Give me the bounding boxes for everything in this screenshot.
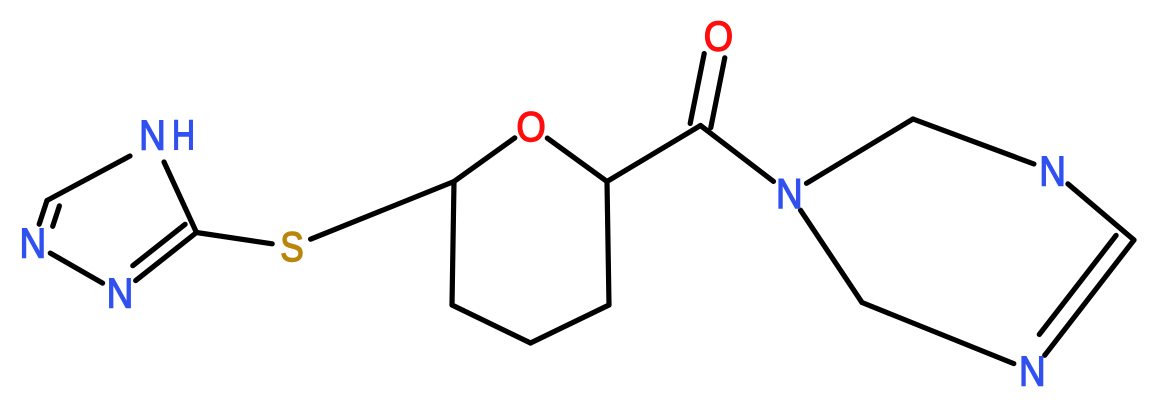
bond V2-Nam (ring CH2) [801, 210, 863, 302]
bond V1-Ntop (ring) [913, 119, 1034, 164]
svg-text:O: O [516, 104, 545, 150]
bond RB-RT (oxane) [607, 182, 609, 306]
svg-text:H: H [172, 111, 195, 158]
bond Cc-Nam (amide C-N) [701, 126, 774, 182]
bond B-RB (oxane) [531, 305, 610, 343]
svg-text:O: O [704, 14, 733, 60]
bond C3-S (thioether) [197, 233, 273, 244]
bond RT-Cc (to carbonyl) [607, 126, 701, 182]
bond D=Nbot outer (amidine) [1045, 240, 1134, 355]
bond Oring-LT (oxane) [454, 138, 515, 182]
bond N4-C5 (triazole NH to C5) [47, 156, 130, 201]
bond LT-LB (oxane) [452, 182, 454, 306]
svg-text:N: N [107, 270, 134, 317]
bond D=Nbot inner (amidine) [1039, 235, 1116, 334]
svg-text:S: S [280, 224, 304, 271]
svg-text:N: N [139, 112, 166, 159]
bond N1-N2 (triazole N-N) [50, 253, 102, 283]
bond N2=C3 inner (triazole) [133, 224, 185, 265]
bond C=O line b (carbonyl) [690, 54, 704, 124]
bond Nam-V1 (ring CH2) [807, 119, 914, 183]
bond C=O line a (carbonyl) [711, 58, 725, 128]
bond LB-B (oxane) [452, 305, 531, 343]
svg-text:N: N [1039, 148, 1066, 195]
bond Ntop-D (ring) [1068, 184, 1134, 240]
bond C3-N4 (triazole) [164, 162, 197, 233]
svg-text:N: N [20, 221, 47, 268]
bond N2=C3 outer (triazole) [136, 233, 197, 281]
svg-text:N: N [1019, 348, 1046, 395]
bond C5=N1 outer (triazole) [39, 201, 47, 225]
bond Nbot-V2 (ring) [862, 303, 1014, 364]
bond Oring-RT (oxane) [547, 138, 607, 181]
bond S-C2oxane (thioether) [311, 182, 454, 240]
svg-text:N: N [776, 171, 803, 218]
bond C5=N1 inner (triazole) [53, 206, 60, 226]
